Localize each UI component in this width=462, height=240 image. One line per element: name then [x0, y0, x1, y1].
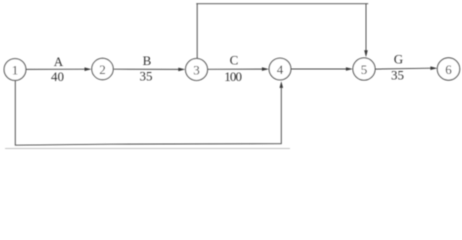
svg-text:G: G	[394, 52, 403, 67]
svg-text:B: B	[143, 53, 152, 68]
svg-text:40: 40	[51, 69, 64, 84]
svg-text:6: 6	[445, 62, 452, 77]
svg-text:4: 4	[277, 62, 284, 77]
svg-text:5: 5	[361, 62, 368, 77]
svg-text:35: 35	[140, 69, 153, 84]
svg-text:C: C	[230, 53, 239, 68]
svg-text:3: 3	[193, 62, 200, 77]
svg-text:35: 35	[391, 68, 404, 83]
svg-text:1: 1	[12, 62, 19, 77]
svg-text:100: 100	[224, 69, 241, 84]
svg-text:2: 2	[99, 62, 106, 77]
svg-text:A: A	[54, 54, 64, 69]
